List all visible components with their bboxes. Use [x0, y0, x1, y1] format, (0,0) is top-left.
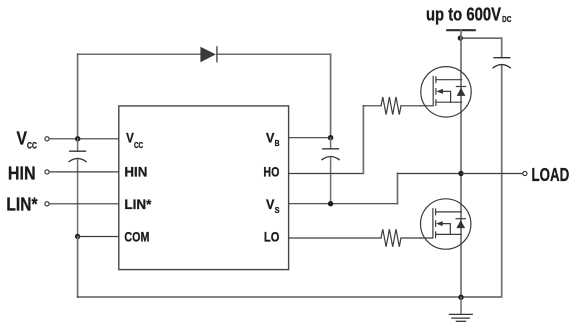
capacitor C1 straight plate [70, 150, 86, 152]
svg-text:S: S [275, 206, 281, 215]
wire: top bootstrap run, left of diode D1 [78, 53, 201, 55]
supply rail bar [447, 29, 474, 31]
wire: top bootstrap run, right of diode D1 [217, 53, 331, 55]
wire: COM node down to bottom return [77, 237, 79, 298]
label: up to 600VDC [426, 4, 511, 24]
svg-text:HIN: HIN [8, 163, 36, 183]
svg-text:HO: HO [263, 164, 279, 180]
svg-text:COM: COM [124, 229, 149, 245]
wire: bottom return run to ground node [78, 296, 461, 298]
node: supply junction dot [458, 35, 463, 40]
node: switch node junction dot [458, 171, 463, 176]
wire: R1 to Q1 gate [401, 105, 421, 107]
terminal LOAD (open circle) [523, 171, 527, 175]
ground symbol lead [460, 297, 462, 314]
capacitor C2 (bootstrap): top lead [330, 138, 332, 149]
label: VCC (left terminal) [17, 129, 38, 151]
IC U1 (gate driver) body [119, 106, 289, 270]
capacitor C2 curved plate [322, 157, 339, 160]
svg-text:HIN: HIN [124, 164, 147, 180]
wire: HIN terminal to IC pin HIN [49, 171, 119, 173]
node: VS / bootstrap-return junction dot [328, 201, 333, 206]
pin label VB (IC) [266, 129, 280, 148]
wire: into R1 left end [363, 105, 381, 107]
node: VCC junction dot [75, 136, 80, 141]
wire: switch node to LOAD terminal [461, 173, 523, 175]
svg-text:CC: CC [27, 141, 37, 151]
ground symbol bars [449, 314, 472, 321]
node: ground junction dot [458, 295, 463, 300]
wire: LIN* terminal to IC pin LIN* [49, 203, 119, 205]
transistor Q2 (low-side MOSFET) [420, 199, 471, 249]
transistor Q1 (high-side MOSFET) [421, 67, 472, 117]
wire: VS up to switch node [397, 174, 399, 204]
resistor R1 (high-side gate) [381, 97, 401, 115]
capacitor C1 bottom lead down to COM node [77, 160, 79, 237]
wire: R2 to Q2 gate [401, 237, 420, 239]
wire: C3 bottom lead down and over to ground node [461, 66, 502, 297]
wire: IC pin VB to bootstrap node [289, 137, 331, 139]
wire: C3 top lead [501, 38, 503, 58]
svg-text:CC: CC [134, 141, 143, 150]
wire: IC pin VS run right [289, 203, 398, 205]
node: VB junction dot [328, 135, 333, 140]
node: COM junction dot [75, 234, 80, 239]
capacitor C3 curved plate [493, 65, 510, 68]
wire: supply branch to bus capacitor C3 [460, 37, 501, 39]
svg-text:up to 600V: up to 600V [426, 4, 501, 24]
capacitor C2 straight plate [323, 148, 339, 150]
svg-text:V: V [17, 129, 28, 149]
wire: Vcc node to top rail (left vertical) [77, 54, 79, 139]
terminal HIN (open circle) [45, 170, 49, 174]
resistor R2 (low-side gate) [381, 229, 401, 247]
wire: IC pin LO run right [289, 237, 381, 239]
wire: IC pin HO run right [289, 173, 364, 175]
wire: main half-bridge rail (drain-source chain) [460, 30, 462, 297]
capacitor C1 curved plate [69, 158, 86, 161]
pin label VS (IC) [266, 196, 280, 215]
svg-text:LIN*: LIN* [124, 196, 152, 212]
pin label VCC (IC) [126, 129, 143, 150]
wire: HO up to gate resistor R1 [362, 106, 364, 174]
diode D1 (bootstrap diode) [200, 47, 217, 63]
capacitor C3 straight plate [494, 57, 510, 59]
svg-text:LO: LO [264, 229, 280, 245]
svg-text:DC: DC [502, 14, 511, 24]
svg-text:LOAD: LOAD [532, 165, 570, 185]
wire: COM node to IC pin COM [78, 236, 119, 238]
wire: VCC terminal to IC pin VCC [49, 138, 119, 140]
capacitor C2 bottom lead down to VS node [330, 158, 332, 204]
terminal LIN* (open circle) [45, 202, 49, 206]
svg-text:LIN*: LIN* [6, 195, 37, 215]
svg-text:B: B [275, 139, 280, 148]
terminal VCC (open circle) [45, 137, 49, 141]
capacitor C1 (Vcc decoupling): top lead [77, 139, 79, 151]
wire: VS over to switch node [398, 173, 462, 175]
wire: down to VB node [330, 54, 332, 138]
